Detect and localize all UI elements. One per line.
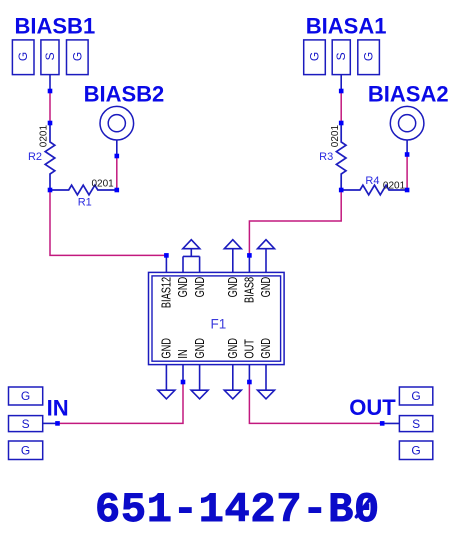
svg-text:S: S <box>412 417 420 431</box>
svg-text:GND: GND <box>227 277 241 298</box>
svg-text:BIASA1: BIASA1 <box>306 14 387 39</box>
svg-text:GND: GND <box>260 338 274 359</box>
svg-text:G: G <box>21 444 30 458</box>
svg-text:BIASB2: BIASB2 <box>84 82 165 107</box>
svg-text:BIAS8: BIAS8 <box>243 277 257 303</box>
svg-text:OUT: OUT <box>243 339 257 359</box>
svg-text:R3: R3 <box>319 151 333 163</box>
svg-text:0201: 0201 <box>39 125 50 148</box>
svg-text:R4: R4 <box>365 175 379 187</box>
svg-text:G: G <box>308 52 322 61</box>
svg-text:BIAS12: BIAS12 <box>160 277 174 308</box>
svg-text:G: G <box>70 52 84 61</box>
svg-text:0201: 0201 <box>383 180 406 191</box>
svg-text:S: S <box>334 52 348 60</box>
svg-text:R2: R2 <box>28 151 42 163</box>
svg-text:BIASB1: BIASB1 <box>15 14 96 39</box>
svg-text:S: S <box>43 52 57 60</box>
svg-text:GND: GND <box>194 338 208 359</box>
svg-text:F1: F1 <box>211 317 227 332</box>
svg-text:R1: R1 <box>78 197 92 209</box>
svg-text:GND: GND <box>260 277 274 298</box>
svg-text:0201: 0201 <box>330 125 341 148</box>
svg-text:GND: GND <box>177 277 191 298</box>
svg-text:GND: GND <box>194 277 208 298</box>
svg-text:IN: IN <box>47 395 69 420</box>
svg-text:651-1427-B0: 651-1427-B0 <box>95 486 380 534</box>
svg-text:G: G <box>362 52 376 61</box>
svg-text:0201: 0201 <box>92 179 115 190</box>
svg-text:GND: GND <box>160 338 174 359</box>
svg-text:G: G <box>411 444 420 458</box>
svg-text:OUT: OUT <box>349 395 396 420</box>
svg-text:IN: IN <box>177 349 191 358</box>
svg-text:BIASA2: BIASA2 <box>368 82 449 107</box>
svg-text:G: G <box>411 389 420 403</box>
svg-text:S: S <box>22 417 30 431</box>
svg-text:GND: GND <box>227 338 241 359</box>
svg-text:G: G <box>21 389 30 403</box>
svg-text:G: G <box>16 52 30 61</box>
